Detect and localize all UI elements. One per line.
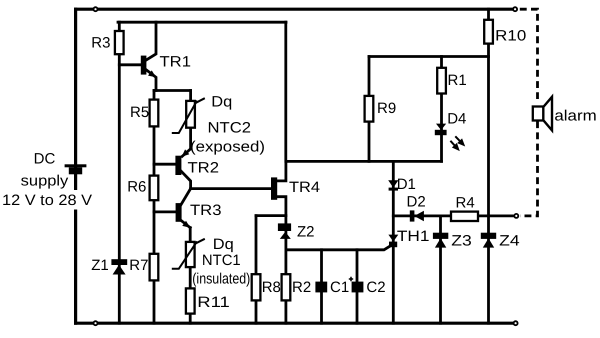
thermistor NTC2 — [172, 98, 205, 133]
zener Z4 — [481, 233, 520, 250]
svg-text:Z4: Z4 — [499, 233, 520, 250]
transistor TR4 — [271, 161, 320, 323]
svg-text:alarm: alarm — [554, 107, 596, 124]
svg-text:DC: DC — [34, 151, 56, 168]
LED D4 — [435, 110, 468, 153]
svg-text:Dq: Dq — [213, 236, 234, 253]
wire top rail — [76, 8, 512, 11]
svg-text:R10: R10 — [495, 28, 526, 45]
svg-text:TR2: TR2 — [188, 160, 220, 177]
thyristor TH1 — [286, 228, 430, 250]
wire inner box left vertical — [118, 22, 121, 323]
svg-text:C2: C2 — [366, 279, 385, 296]
svg-text:R4: R4 — [456, 195, 475, 212]
svg-text:R7: R7 — [129, 257, 148, 274]
svg-text:R8: R8 — [262, 279, 281, 296]
wire TR1 emitter to NTC2 — [154, 89, 191, 92]
diode D2 — [407, 193, 426, 221]
wire D1 TH1 vertical — [392, 161, 395, 323]
zener Z2 — [278, 223, 315, 240]
svg-text:TR4: TR4 — [289, 179, 320, 196]
zener Z1 — [91, 257, 127, 275]
transistor TR1 — [119, 54, 191, 91]
svg-text:TH1: TH1 — [397, 228, 430, 245]
svg-text:R5: R5 — [130, 104, 149, 121]
transistor TR3 — [154, 189, 222, 231]
wire R9/R1 top horizontal y56.5 — [369, 55, 489, 58]
wire NTC2 branch — [189, 91, 192, 149]
capacitor C1 — [315, 250, 353, 323]
speaker alarm — [533, 97, 597, 131]
svg-text:D2: D2 — [407, 193, 426, 210]
resistor R10 — [484, 20, 526, 45]
label DC supply — [2, 151, 93, 210]
resistor R3 — [115, 31, 124, 54]
wire output horizontal y216 — [393, 214, 513, 217]
svg-text:(insulated): (insulated) — [192, 270, 250, 287]
wire dashed alarm to output — [520, 121, 538, 216]
svg-text:TR1: TR1 — [160, 54, 192, 71]
resistor R9 — [365, 57, 397, 162]
svg-text:R1: R1 — [448, 72, 467, 89]
resistor R8 — [252, 216, 286, 324]
wire bottom rail — [76, 322, 514, 325]
svg-text:TR3: TR3 — [190, 202, 222, 219]
wire TR3 emitter / NTC1 / R11 vertical — [189, 228, 192, 324]
svg-text:Z2: Z2 — [297, 224, 315, 241]
svg-text:Z1: Z1 — [91, 257, 109, 274]
node supply - terminal — [94, 321, 98, 325]
svg-text:Z3: Z3 — [451, 233, 472, 250]
svg-text:NTC1: NTC1 — [202, 252, 241, 269]
node alarm output terminal — [514, 214, 518, 218]
thermistor NTC1 — [172, 239, 205, 269]
svg-text:R6: R6 — [127, 179, 146, 196]
battery DC supply — [65, 164, 87, 174]
zener Z3 — [433, 216, 472, 323]
resistor R6 — [150, 176, 159, 201]
svg-text:D1: D1 — [397, 176, 416, 193]
svg-text:12 V to 28 V: 12 V to 28 V — [2, 192, 92, 209]
svg-text:R3: R3 — [91, 34, 110, 51]
svg-text:D4: D4 — [447, 110, 466, 127]
svg-text:R2: R2 — [292, 279, 311, 296]
svg-text:R9: R9 — [377, 100, 396, 117]
resistor R11 — [186, 288, 195, 313]
node alarm + terminal — [513, 7, 517, 11]
svg-text:NTC2: NTC2 — [208, 120, 252, 137]
transistor TR2 — [154, 149, 219, 189]
svg-text:R11: R11 — [197, 294, 230, 311]
wire TR2/TR3 collectors to TR4 base — [191, 187, 272, 190]
node 0V terminal — [514, 321, 518, 325]
svg-text:supply: supply — [21, 173, 69, 190]
resistor R2 — [282, 274, 312, 300]
wire inner box right vertical — [284, 22, 287, 161]
diode D1 — [388, 176, 416, 193]
wire TR1 collector — [146, 22, 157, 60]
svg-text:Dq: Dq — [211, 93, 232, 110]
wire left supply rail — [74, 9, 77, 323]
wire dashed top to alarm — [520, 9, 538, 99]
wire middle horizontal y161 — [286, 160, 442, 163]
node supply + terminal — [94, 7, 98, 11]
resistor R7 — [150, 254, 159, 281]
wire R10 Z4 vertical — [487, 9, 490, 323]
resistor R5 — [150, 100, 159, 127]
resistor R1 — [437, 57, 466, 162]
wire inner box top — [118, 21, 286, 24]
capacitor C2 — [352, 250, 386, 323]
resistor R4 — [451, 195, 478, 221]
wire R5 R6 R7 vertical — [153, 91, 156, 324]
svg-text:(exposed): (exposed) — [190, 139, 265, 156]
svg-text:C1: C1 — [330, 279, 349, 296]
